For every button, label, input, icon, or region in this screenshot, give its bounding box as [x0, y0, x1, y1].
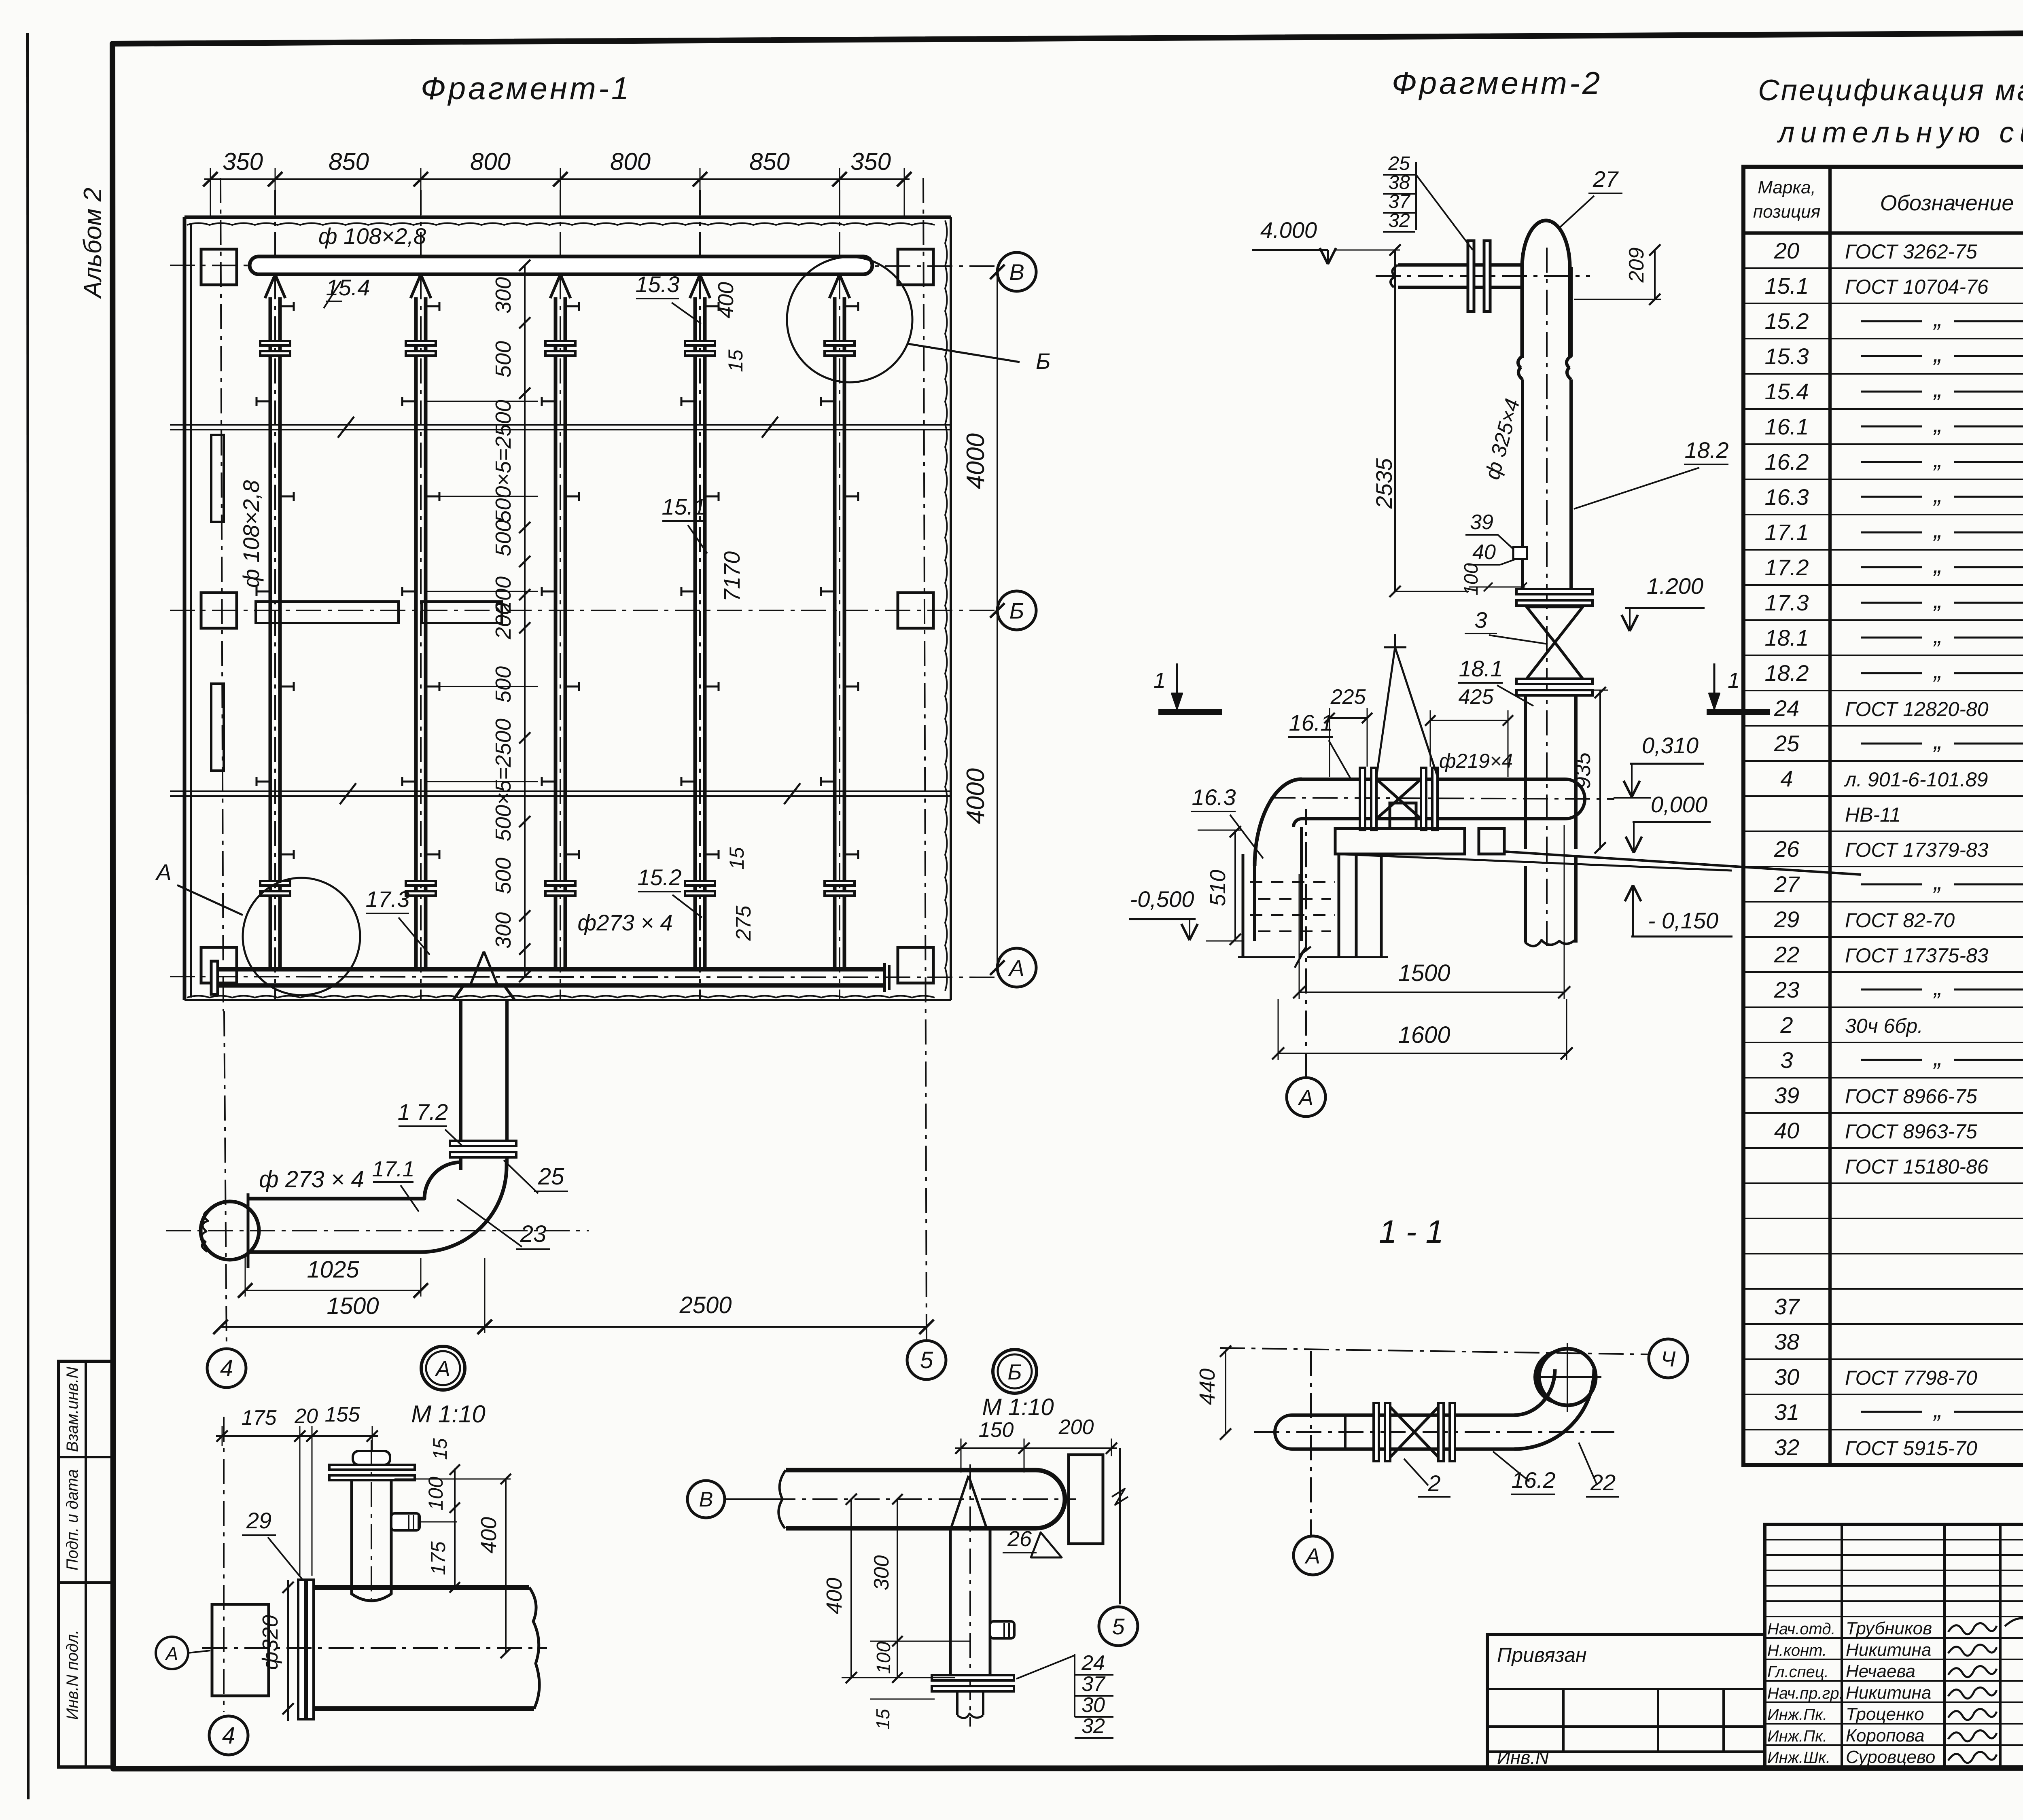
svg-text:30ч 6бр.: 30ч 6бр. [1845, 1015, 1923, 1037]
nozzle tick [257, 781, 271, 783]
svg-text:„: „ [1933, 1044, 1942, 1071]
svg-text:- 0,150: - 0,150 [1648, 908, 1718, 933]
spec table row line [1743, 831, 2023, 832]
sec11 elbow 22 outer [1514, 1369, 1594, 1449]
svg-text:27: 27 [1593, 166, 1619, 192]
svg-text:Б: Б [1007, 1360, 1022, 1384]
extension line [904, 168, 905, 218]
svg-text:100: 100 [873, 1642, 895, 1674]
frag2 elbow dome [1522, 220, 1570, 358]
svg-text:А: А [155, 859, 171, 885]
узел Б axis circle В [687, 1481, 725, 1518]
svg-text:2: 2 [1780, 1012, 1793, 1038]
nozzle connector line [427, 686, 525, 687]
svg-text:935: 935 [1571, 752, 1595, 789]
svg-text:209: 209 [1625, 248, 1648, 283]
svg-text:800: 800 [610, 148, 651, 175]
svg-text:ГОСТ 17375-83: ГОСТ 17375-83 [1845, 944, 1989, 967]
nozzle tick [844, 686, 858, 688]
names table column [1943, 1524, 1946, 1767]
svg-text:„: „ [1933, 551, 1942, 578]
svg-text:А: А [1008, 955, 1024, 981]
узел Б right rect [1069, 1455, 1103, 1544]
extension line [560, 168, 561, 218]
svg-text:ф 108×2,8: ф 108×2,8 [318, 223, 426, 249]
spec table row line [1743, 1182, 2023, 1184]
frag2 pipe chain vertical [1546, 248, 1548, 951]
svg-text:15.1: 15.1 [662, 494, 706, 519]
svg-text:39: 39 [1774, 1083, 1799, 1108]
nozzle tick [821, 591, 835, 593]
svg-text:1: 1 [1728, 668, 1740, 693]
spec table row line [1743, 408, 2023, 410]
svg-text:38: 38 [1388, 172, 1410, 193]
frag2 bottom flange pair [1516, 589, 1593, 594]
dimension tick [519, 816, 530, 827]
svg-text:24: 24 [1774, 695, 1799, 721]
svg-text:18.1: 18.1 [1765, 625, 1809, 650]
svg-text:Н.конт.: Н.конт. [1767, 1642, 1827, 1659]
Привязан grid [1487, 1688, 1765, 1690]
spec table row line [1743, 760, 2023, 762]
svg-text:„: „ [1933, 481, 1942, 508]
row ditto mark [1861, 426, 1922, 428]
stamp column divider row2 [59, 1581, 112, 1584]
svg-text:440: 440 [1195, 1369, 1219, 1405]
riser lower flange pair [260, 881, 290, 886]
svg-text:3: 3 [1780, 1047, 1793, 1073]
callout leader А [177, 885, 243, 915]
axis circle А [997, 948, 1036, 987]
svg-text:15.3: 15.3 [1765, 343, 1809, 369]
elbow 16.3 inner [1294, 819, 1302, 827]
svg-text:4000: 4000 [962, 433, 990, 489]
svg-text:400: 400 [714, 282, 738, 318]
nozzle connector line [427, 496, 525, 497]
svg-text:15.4: 15.4 [326, 275, 370, 300]
svg-text:23: 23 [1774, 977, 1799, 1002]
узел Б bottom flange plates [932, 1675, 1014, 1680]
svg-text:20: 20 [1774, 238, 1799, 263]
dimension tick [832, 172, 847, 186]
svg-text:2535: 2535 [1371, 458, 1397, 509]
sec11 pipe [1292, 1415, 1515, 1449]
column square [201, 593, 237, 628]
svg-text:400: 400 [477, 1517, 501, 1553]
svg-text:л. 901-6-101.89: л. 901-6-101.89 [1844, 768, 1988, 791]
svg-text:M 1:10: M 1:10 [411, 1400, 485, 1428]
service plank right [422, 602, 502, 623]
spec table outer frame [1743, 167, 2023, 1465]
svg-text:Инв.N подл.: Инв.N подл. [64, 1630, 81, 1720]
pipe end circle [201, 1201, 259, 1260]
svg-text:„: „ [1933, 973, 1942, 1000]
water tank walls [1242, 854, 1245, 957]
узел А dimension chain top [216, 1435, 378, 1437]
svg-text:Б: Б [1036, 348, 1050, 374]
svg-text:1025: 1025 [307, 1256, 359, 1283]
svg-text:25: 25 [1774, 731, 1800, 756]
dimension tick [519, 971, 530, 982]
узел Б riser [949, 1528, 952, 1675]
svg-text:15.4: 15.4 [1765, 379, 1809, 404]
callout leader Б [908, 344, 1020, 362]
frag2 flange pair vertical [1468, 241, 1474, 311]
svg-text:ГОСТ 7798-70: ГОСТ 7798-70 [1845, 1367, 1977, 1389]
spec table row line [1743, 866, 2023, 867]
svg-text:300: 300 [491, 277, 515, 314]
spec table row line [1743, 1323, 2023, 1325]
axis line Б horizontal [170, 610, 996, 611]
svg-text:0,310: 0,310 [1642, 733, 1699, 758]
svg-text:4: 4 [222, 1723, 235, 1749]
svg-text:лительную систему градирни: лительную систему градирни [1777, 117, 2023, 149]
stamp column divider vertical [85, 1361, 87, 1767]
names table column [1999, 1524, 2002, 1767]
svg-text:100: 100 [1461, 563, 1482, 595]
sec11 elbow 22 inner [1514, 1369, 1555, 1415]
svg-text:Коропова: Коропова [1846, 1726, 1925, 1746]
svg-text:В: В [1009, 259, 1024, 285]
basin bottom edge [184, 999, 951, 1001]
row ditto mark [1861, 637, 1922, 639]
svg-text:ГОСТ 82-70: ГОСТ 82-70 [1845, 909, 1955, 932]
row ditto mark [1861, 1411, 1922, 1413]
nozzle tick [681, 781, 696, 783]
svg-text:ГОСТ 15180-86: ГОСТ 15180-86 [1845, 1155, 1989, 1178]
svg-text:20: 20 [294, 1405, 318, 1428]
nozzle tick [704, 854, 719, 856]
узел А nozzle chain [371, 1440, 372, 1599]
svg-text:500: 500 [491, 520, 515, 556]
svg-text:позиция: позиция [1753, 202, 1820, 222]
column square [898, 593, 933, 628]
names table row line [1765, 1680, 2023, 1682]
svg-text:275: 275 [732, 905, 755, 941]
riser lower flange pair [406, 881, 436, 886]
svg-text:300: 300 [870, 1555, 893, 1591]
svg-text:15: 15 [430, 1438, 451, 1460]
break zigzag [762, 417, 778, 438]
dim 1500 [484, 1258, 486, 1333]
drop pipe below flange [459, 1157, 462, 1170]
dimension tick [693, 172, 707, 186]
riser upper flange pair [260, 341, 290, 345]
riser lower flange pair [825, 881, 855, 886]
frag2 pipe below valve [1524, 695, 1527, 849]
frag2 stack leader [1416, 175, 1473, 250]
elbow 16.3 outer [1255, 779, 1302, 866]
узел Б axis circle Б double [993, 1350, 1037, 1393]
column square [898, 947, 933, 983]
svg-text:3: 3 [1474, 607, 1487, 633]
section mark 1 right [1707, 709, 1770, 715]
узел Б spigot [990, 1621, 1014, 1638]
svg-text:5: 5 [920, 1347, 933, 1373]
spec table row line [1743, 373, 2023, 375]
узел Б stub below [956, 1691, 958, 1715]
узел А axis circle А left [156, 1637, 188, 1669]
riser pipe 15.1 #3 [554, 297, 558, 969]
svg-text:А: А [165, 1643, 178, 1664]
svg-text:2: 2 [1427, 1470, 1440, 1496]
row ditto mark [1861, 743, 1922, 745]
axis 5 chain lower [926, 1339, 927, 1341]
nozzle tick [402, 400, 416, 403]
svg-text:Ч: Ч [1661, 1347, 1676, 1371]
names table row line [1765, 1637, 2023, 1639]
frag2 valve X [1376, 779, 1421, 819]
nozzle tick [704, 686, 719, 688]
nozzle tick [402, 781, 416, 783]
Привязан box [1487, 1634, 1765, 1767]
spec table row line [1743, 971, 2023, 973]
узел А nozzle flange plates [329, 1465, 415, 1470]
riser upper flange pair [406, 341, 436, 345]
узел Б ext line 400 left [842, 1677, 955, 1678]
dimension tick [203, 172, 218, 186]
frag2 vertical pipe ф325 upper [1521, 357, 1524, 360]
dim 1025 [245, 1254, 246, 1297]
svg-text:39: 39 [1470, 511, 1493, 534]
svg-text:15.2: 15.2 [638, 864, 682, 890]
dimension tick [519, 260, 530, 271]
riser lower flange pair [685, 881, 715, 886]
nozzle tick [844, 496, 858, 498]
svg-text:100: 100 [424, 1477, 447, 1511]
nozzle tick [821, 400, 835, 403]
frag2 flange pair below valve [1516, 679, 1593, 684]
dimension tick [519, 388, 530, 399]
slab notch [1390, 803, 1416, 828]
svg-text:30: 30 [1081, 1693, 1105, 1717]
svg-text:„: „ [1933, 516, 1942, 543]
svg-text:32: 32 [1774, 1434, 1799, 1460]
row ditto mark [1861, 532, 1922, 534]
basin right edge [950, 217, 952, 1000]
names table thin row [1765, 1570, 2023, 1571]
svg-text:-0,500: -0,500 [1130, 886, 1194, 912]
svg-text:А: А [1304, 1544, 1320, 1568]
callout circle Узел Б [787, 257, 912, 382]
row ditto mark [1861, 320, 1922, 322]
nozzle tick [542, 591, 556, 593]
svg-text:„: „ [1933, 868, 1942, 895]
sec11 А circle [1294, 1536, 1332, 1575]
svg-text:500: 500 [491, 858, 515, 894]
extension line [275, 168, 276, 218]
axis line А horizontal [170, 977, 996, 977]
column square [898, 249, 933, 285]
sec11 circle cross [1567, 1343, 1568, 1412]
nozzle connector line [427, 401, 525, 402]
spec table column lines [1828, 167, 1832, 1465]
svg-text:1: 1 [1154, 668, 1166, 693]
svg-text:26: 26 [1774, 836, 1800, 862]
basin top edge [184, 216, 951, 219]
callout circle Узел А [243, 878, 360, 995]
svg-text:Суровцево: Суровцево [1846, 1747, 1935, 1767]
svg-text:37: 37 [1774, 1294, 1800, 1319]
svg-text:7170: 7170 [719, 551, 744, 602]
узел Б leader from В [725, 1498, 783, 1500]
svg-text:25: 25 [1388, 153, 1410, 174]
frag2 horizontal pipe chain [1270, 798, 1614, 799]
row ditto mark [1861, 355, 1922, 357]
svg-text:23: 23 [520, 1221, 547, 1247]
pipe end flange line [247, 1193, 250, 1268]
spec table row line [1743, 443, 2023, 445]
nozzle tick [280, 496, 294, 498]
svg-text:200: 200 [491, 603, 515, 640]
svg-text:„: „ [1933, 340, 1942, 367]
riser upper flange pair [825, 341, 855, 345]
nozzle tick [542, 781, 556, 783]
break zigzag [784, 783, 800, 804]
spec table header underline [1743, 231, 2023, 235]
svg-text:32: 32 [1388, 210, 1410, 231]
spec table row line [1743, 690, 2023, 691]
nozzle tick [565, 496, 579, 498]
riser centreline [839, 190, 840, 1000]
svg-text:ГОСТ 8966-75: ГОСТ 8966-75 [1845, 1085, 1977, 1108]
svg-text:15: 15 [725, 847, 748, 870]
svg-text:16.1: 16.1 [1765, 414, 1809, 439]
svg-text:31: 31 [1774, 1399, 1799, 1425]
nozzle tick [280, 305, 294, 307]
svg-text:26: 26 [1007, 1527, 1032, 1551]
svg-text:16.2: 16.2 [1765, 449, 1809, 475]
slab step [1479, 828, 1504, 854]
break line [170, 790, 951, 792]
spec table row line [1743, 1112, 2023, 1114]
break zigzag [340, 783, 356, 804]
svg-text:„: „ [1933, 305, 1942, 332]
axis line 4 lower continuation [224, 1011, 227, 1348]
pipe end patch [201, 1210, 210, 1252]
nozzle tick [425, 686, 439, 688]
sec11 valve X [1390, 1407, 1438, 1457]
sec11 flange pairs [1374, 1403, 1379, 1461]
svg-text:ГОСТ 8963-75: ГОСТ 8963-75 [1845, 1120, 1977, 1143]
узел Б dim 400 [850, 1499, 852, 1678]
svg-text:15.3: 15.3 [636, 271, 680, 297]
basin left inner line [190, 223, 192, 998]
riser pipe 15.1 #4 [693, 297, 697, 969]
svg-text:1.200: 1.200 [1647, 573, 1703, 599]
axis circle В [997, 252, 1036, 291]
svg-text:37: 37 [1388, 191, 1411, 212]
nozzle tick [844, 305, 858, 307]
svg-text:4.000: 4.000 [1260, 217, 1317, 243]
names table thin row [1765, 1600, 2023, 1602]
spec table row line [1743, 267, 2023, 269]
svg-text:„: „ [1933, 657, 1942, 684]
manifold right cap [883, 963, 886, 992]
spec table row line [1743, 1077, 2023, 1078]
svg-text:16.3: 16.3 [1765, 484, 1809, 510]
manifold tee shoulders [453, 985, 464, 1000]
svg-text:НВ-11: НВ-11 [1845, 803, 1901, 826]
svg-text:24: 24 [1081, 1651, 1105, 1675]
top dimension chain line [204, 178, 910, 180]
узел А dim 400 [505, 1479, 507, 1653]
title block horizontal 4040 [1487, 1633, 1765, 1636]
svg-text:ф320: ф320 [258, 1615, 282, 1670]
row ditto mark [1861, 1059, 1922, 1061]
sec11 chain horizontal [1220, 1348, 1649, 1354]
spec table row line [1743, 1006, 2023, 1008]
spec table row line [1743, 1218, 2023, 1219]
svg-text:В: В [699, 1488, 713, 1511]
svg-text:16.3: 16.3 [1192, 784, 1236, 810]
central dimension line [524, 265, 526, 977]
elbow 17.1 inner arc [248, 1162, 461, 1199]
nozzle tick [257, 591, 271, 593]
svg-text:2500: 2500 [679, 1292, 732, 1318]
spec table row line [1743, 1429, 2023, 1430]
svg-text:„: „ [1933, 375, 1942, 402]
names table thin row [1765, 1539, 2023, 1540]
dimension tick [519, 910, 530, 922]
svg-text:850: 850 [329, 148, 369, 175]
dimension tick [519, 317, 530, 328]
svg-text:Гл.спец.: Гл.спец. [1767, 1663, 1829, 1681]
nozzle tick [681, 400, 696, 403]
svg-text:175: 175 [242, 1406, 277, 1430]
svg-text:17.3: 17.3 [1765, 590, 1809, 615]
узел Б dim 300 [897, 1499, 898, 1678]
spec table row line [1743, 795, 2023, 797]
names table row line [1765, 1659, 2023, 1660]
dimension tick [553, 172, 568, 186]
dimension tick [519, 556, 530, 567]
extension line [420, 168, 422, 218]
break zigzag [338, 417, 354, 438]
svg-text:1 - 1: 1 - 1 [1379, 1214, 1444, 1250]
dimension tick [519, 622, 530, 634]
svg-text:350: 350 [850, 148, 891, 175]
floor under line [1335, 854, 1732, 871]
svg-text:„: „ [1933, 1396, 1942, 1423]
svg-text:40: 40 [1774, 1118, 1799, 1143]
svg-text:200: 200 [1058, 1415, 1094, 1439]
svg-text:ф 273 × 4: ф 273 × 4 [259, 1166, 364, 1193]
sec11 weld line [1344, 1415, 1347, 1449]
stamp column divider row1 [59, 1456, 112, 1458]
sec11 А chain vertical [1310, 1351, 1312, 1536]
nozzle tick [280, 854, 294, 856]
nozzle tick [844, 854, 858, 856]
spec table row line [1743, 549, 2023, 551]
svg-text:15.2: 15.2 [1765, 308, 1809, 334]
basin left edge [183, 217, 187, 1000]
column square [201, 249, 237, 285]
svg-text:„: „ [1933, 727, 1942, 754]
svg-text:4: 4 [220, 1355, 233, 1381]
spec table row line [1743, 1042, 2023, 1043]
svg-text:22: 22 [1774, 942, 1799, 967]
frag2 left drop pipe [1253, 866, 1256, 941]
svg-text:„: „ [1933, 445, 1942, 472]
dimension tick [414, 172, 428, 186]
left stamp column box [59, 1361, 112, 1767]
svg-text:300: 300 [491, 912, 515, 949]
nozzle connector line [427, 591, 525, 592]
extension line [839, 168, 840, 218]
узел Б pipe horizontal [786, 1468, 1036, 1473]
riser upper flange pair [685, 341, 715, 345]
